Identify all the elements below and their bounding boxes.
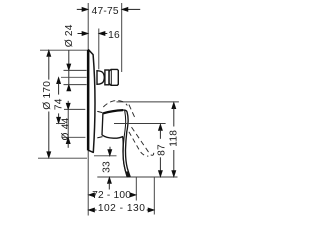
svg-text:87: 87 [156,144,167,156]
dashed: raised handle blade outer line [132,127,154,155]
wire: extension line at sleeve base (16 left) [98,29,100,70]
dimension 102-130 [88,203,154,214]
wire: hub top extension [64,108,85,110]
wire: right extension line of 47-75 / 16 [121,3,123,72]
svg-text:16: 16 [108,30,120,41]
wire: handle hub centerline extension (right) [114,123,166,125]
wire: 102-130 right extension [153,177,155,215]
wire: plate top extension line [40,49,87,51]
wire: bottom reference line (handle tip level) [97,176,177,178]
svg-text:118: 118 [168,130,179,147]
dimension 72-100 [88,190,136,201]
svg-text:102 - 130: 102 - 130 [98,203,146,214]
dimension 74 (stem axis to handle axis) [54,77,65,123]
dashed: raised handle blade inner line [129,132,148,156]
svg-text:33: 33 [101,161,112,173]
handle top thick edge [103,110,123,113]
sleeve between plate and handle hub: bottom edge [97,137,102,138]
dashed: raised handle outer edge (steep from hub) [129,105,135,118]
wire: stem bottom extension [64,84,87,86]
dimension 16 [78,30,120,41]
wire: wall reference line (left extension, full height) [87,3,89,216]
svg-text:74: 74 [54,98,65,110]
dimension 87 [156,124,167,177]
dimension 118 [168,102,179,176]
dashed: handle raised position, dome over hub [103,101,127,107]
svg-text:Ø 170: Ø 170 [42,81,53,110]
wire: stem centerline extension [61,76,87,78]
wire: hub bottom extension [62,136,86,138]
svg-text:Ø 44: Ø 44 [61,117,72,140]
handle (lever) body [102,110,130,177]
handle blade tip [126,172,130,177]
dimension Ø44 (handle hub diameter) [61,101,72,148]
escutcheon plate (edge view) [88,50,95,153]
dimension Ø170 (plate) [42,50,53,158]
wire: plate bottom extension line [38,157,87,159]
valve stem: sleeve dome cap [97,71,104,85]
valve stem: knob inner edge line [110,70,112,86]
valve stem: ring [105,70,109,85]
dimension Ø24 (stem diameter) [64,24,75,91]
svg-text:Ø 24: Ø 24 [64,24,75,47]
wire: stem top extension [64,69,87,71]
wire: 118 top extension (raised handle tip level) [117,101,179,103]
dimension 33 [101,147,112,190]
sleeve between plate and handle hub: top edge [97,111,102,112]
handle front-face inner edge [123,111,127,176]
wire: extension at plate lower corner (33 top ref) [94,155,117,157]
dimension 47-75 (top) [77,6,140,17]
wire: hub centerline extension (left) [56,123,65,125]
svg-text:47-75: 47-75 [92,6,119,17]
svg-text:72 - 100: 72 - 100 [92,190,131,201]
wire: 72-100 right extension [135,177,137,201]
valve stem: knob Ø24 [109,69,118,85]
